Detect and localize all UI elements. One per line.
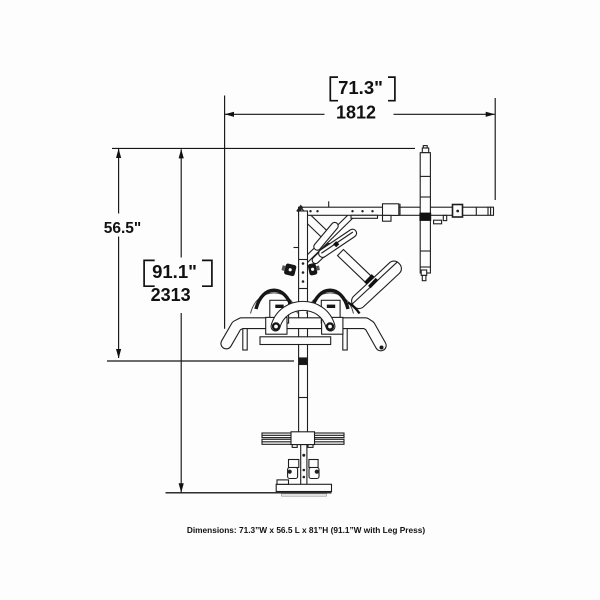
bracket top left: [330, 77, 338, 101]
svg-text:2313: 2313: [151, 285, 191, 305]
beam bolts: [309, 210, 459, 213]
corner flag: [296, 205, 303, 213]
corner mitre cut line: [301, 207, 308, 215]
press lever lower tube: [338, 249, 377, 287]
clamp left: [266, 317, 287, 334]
hub knob left: [281, 262, 297, 276]
dim line 91.1 vertical: [180, 149, 182, 492]
foot plate grip band: [364, 274, 378, 288]
L bracket under beam: [443, 215, 446, 220]
beam stub tick: [328, 201, 330, 207]
base plate: [276, 484, 331, 491]
beam block: [383, 204, 399, 216]
pad block left: [270, 300, 289, 323]
extension line bottom horizontal (over base): [166, 492, 332, 494]
post bolts: [302, 262, 305, 283]
top beam: [299, 207, 494, 215]
svg-text:Dimensions: 71.3”W x 56.5 L x: Dimensions: 71.3”W x 56.5 L x 81”H (91.1…: [187, 525, 425, 535]
press arm pivot tube: [298, 212, 356, 268]
dim line 56.5 vertical: [118, 149, 120, 358]
arrow right 71.3: [486, 112, 495, 117]
beam under plate: [351, 215, 378, 218]
extension line left vertical (71.3): [224, 96, 226, 329]
post mid section over seat: [299, 358, 308, 433]
press bar sleeve: [419, 213, 431, 221]
extension line top horizontal: [112, 147, 415, 149]
bracket bottom right: [202, 260, 212, 286]
rail pad main: [317, 228, 358, 259]
pad block right: [321, 300, 340, 323]
foot plate capsule: [349, 258, 404, 311]
svg-text:91.1": 91.1": [152, 261, 197, 282]
arc pad left: [251, 290, 298, 313]
rollers: [288, 468, 298, 479]
right leg stub: [343, 328, 347, 351]
arc pad right: [307, 290, 360, 313]
press bar (tall vertical): [420, 146, 430, 281]
seat plate: [260, 337, 331, 345]
extension line right vertical (71.3): [494, 98, 496, 200]
svg-text:1812: 1812: [336, 103, 376, 123]
beam end segments: [475, 207, 477, 215]
arrow down 91.1: [179, 483, 184, 492]
main post: [294, 211, 308, 358]
arrow left 71.3: [225, 112, 234, 117]
rail pad upper: [312, 221, 339, 252]
U bar: [276, 306, 331, 327]
flank blocks: [289, 460, 299, 468]
arrow down 56.5: [116, 349, 121, 358]
beam clamp: [453, 205, 463, 218]
pad label right: [327, 305, 335, 308]
weight stack: [262, 432, 344, 492]
rail pad lower: [311, 242, 334, 265]
bracket bottom left: [144, 260, 155, 286]
guide post: [301, 445, 307, 485]
left leg stub: [243, 328, 247, 351]
handlebar: [226, 323, 380, 345]
rail pad bolt: [333, 241, 339, 247]
hub knob right: [307, 262, 320, 276]
pad label left: [275, 305, 283, 308]
svg-text:56.5": 56.5": [104, 220, 142, 237]
handle tip bolt: [380, 346, 384, 350]
extension line bottom horizontal: [166, 492, 332, 494]
dim line 71.3 horizontal segments: [225, 113, 495, 115]
carriage block: [291, 432, 315, 445]
base lip: [282, 494, 327, 496]
svg-text:71.3": 71.3": [338, 77, 383, 98]
plates: [262, 433, 344, 438]
beam small block below: [383, 215, 392, 221]
extension line mid horizontal: [107, 360, 294, 362]
press lever upper tube: [299, 209, 329, 239]
clamp right: [322, 317, 343, 334]
bracket top right: [388, 77, 395, 101]
arrow up 91.1: [179, 149, 184, 158]
stack bolts: [288, 454, 319, 479]
U bar bolt right: [326, 322, 334, 330]
arrow up 56.5: [116, 149, 121, 158]
U bar bolt left: [272, 322, 280, 330]
